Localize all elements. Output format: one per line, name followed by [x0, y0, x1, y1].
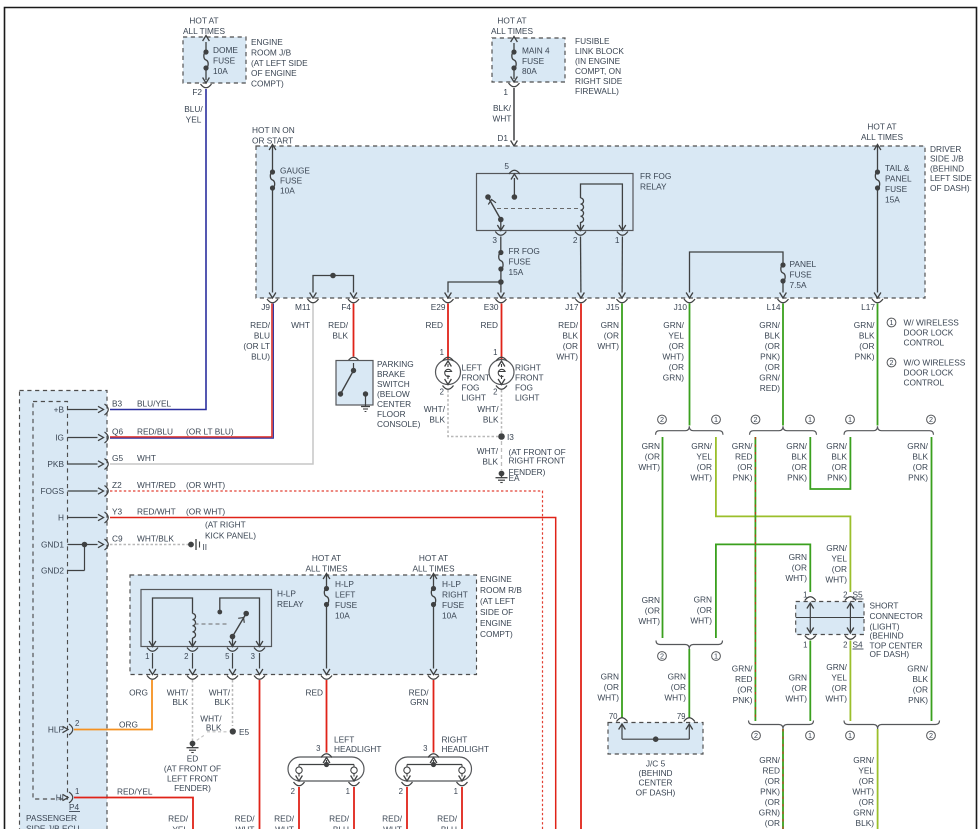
junction block ENGINE ROOM J/B (dome fuse) [183, 16, 308, 89]
svg-text:W/ WIRELESS: W/ WIRELESS [904, 318, 960, 328]
svg-text:1: 1 [454, 787, 458, 796]
svg-text:YEL: YEL [186, 115, 202, 125]
svg-text:GRN/: GRN/ [732, 441, 753, 451]
svg-text:2: 2 [75, 719, 79, 728]
svg-text:(OR: (OR [859, 776, 874, 786]
H-LP RELAY pins 1 2 5 3 [145, 641, 265, 669]
wire RED from E29 to left fog light [440, 304, 448, 360]
svg-text:PNK): PNK) [908, 473, 928, 483]
svg-text:SIDE J/B ECU: SIDE J/B ECU [26, 824, 79, 829]
svg-text:RED/: RED/ [437, 814, 458, 824]
svg-text:2: 2 [399, 787, 403, 796]
svg-text:GRN/: GRN/ [826, 662, 847, 672]
svg-text:(OR: (OR [859, 797, 874, 807]
svg-text:CONSOLE): CONSOLE) [377, 419, 421, 429]
svg-text:PNK): PNK) [827, 473, 847, 483]
svg-text:RIGHT: RIGHT [515, 363, 541, 373]
svg-text:YEL: YEL [668, 331, 684, 341]
svg-text:B3: B3 [112, 399, 123, 409]
connector pin 1 [503, 77, 519, 98]
svg-text:LIGHT: LIGHT [462, 393, 486, 403]
svg-text:15A: 15A [509, 267, 524, 277]
svg-text:GRN): GRN) [759, 808, 780, 818]
wire label RED/BLK (OR WHT) for J17 [556, 320, 578, 362]
wire GRN from short connector S5 pin 1 down to gather brace [690, 544, 810, 638]
svg-text:PANEL: PANEL [885, 174, 912, 184]
ground EA at front of right front fender [496, 447, 566, 483]
fuse FR FOG FUSE 15A [498, 237, 540, 293]
svg-text:RED/: RED/ [382, 814, 403, 824]
svg-text:FR FOG: FR FOG [509, 246, 540, 256]
svg-text:PNK): PNK) [760, 352, 780, 362]
svg-text:L14: L14 [767, 302, 781, 312]
svg-text:15A: 15A [885, 195, 900, 205]
svg-text:HOT AT: HOT AT [419, 553, 448, 563]
wire WHT/RED from FOGS down right side [110, 491, 543, 829]
wire GRN/BLK branch 1 U-link between L14 and L17 braces [786, 437, 850, 489]
wire WHT/BLK from pin 5 to E5 [197, 680, 233, 741]
svg-text:(BEHIND: (BEHIND [930, 163, 964, 173]
svg-text:RED: RED [735, 674, 753, 684]
svg-text:FOGS: FOGS [40, 486, 64, 496]
svg-text:(AT LEFT: (AT LEFT [480, 596, 515, 606]
svg-text:HOT AT: HOT AT [867, 122, 896, 132]
svg-text:(OR: (OR [669, 362, 684, 372]
legend W/ WIRELESS DOOR LOCK CONTROL [887, 318, 959, 348]
svg-text:+B: +B [54, 405, 65, 415]
svg-text:H-LP: H-LP [335, 579, 354, 589]
svg-text:CONNECTOR: CONNECTOR [870, 611, 923, 621]
svg-text:BLK: BLK [332, 331, 348, 341]
wire WHT/BLK from left fog light to I3 [424, 390, 498, 437]
svg-text:ED: ED [187, 754, 199, 764]
svg-text:(OR: (OR [792, 462, 807, 472]
svg-text:(OR: (OR [792, 683, 807, 693]
svg-text:1: 1 [808, 415, 812, 424]
svg-text:HLP: HLP [48, 725, 65, 735]
svg-text:CENTER: CENTER [638, 778, 672, 788]
svg-text:RED: RED [762, 766, 780, 776]
svg-text:(OR: (OR [645, 606, 660, 616]
svg-text:(OR: (OR [832, 564, 847, 574]
svg-text:10A: 10A [442, 611, 457, 621]
wire WHT from M11 to PKB [110, 304, 313, 465]
node E5 [230, 727, 250, 737]
svg-text:H: H [58, 513, 64, 523]
svg-text:WHT): WHT) [556, 352, 578, 362]
svg-text:(OR: (OR [697, 605, 712, 615]
wire GRN from S4 pin 1 to brace A [785, 641, 810, 722]
wire GRN/BLK from L17 to brace [877, 304, 879, 426]
svg-text:RED: RED [735, 452, 753, 462]
svg-text:ALL TIMES: ALL TIMES [491, 26, 533, 36]
svg-text:ROOM J/B: ROOM J/B [251, 47, 292, 57]
svg-text:WHT): WHT) [662, 352, 684, 362]
svg-text:DOME: DOME [213, 45, 238, 55]
svg-text:RELAY: RELAY [277, 599, 304, 609]
svg-text:5: 5 [504, 161, 509, 171]
svg-text:PNK): PNK) [733, 473, 753, 483]
svg-text:GRN/: GRN/ [826, 441, 847, 451]
svg-text:H-LP: H-LP [277, 589, 296, 599]
svg-text:WHT): WHT) [690, 616, 712, 626]
wire GRN branch 2 from J10 brace down [638, 437, 662, 638]
svg-text:YEL: YEL [858, 766, 874, 776]
connectors J9 M11 F4 E29 E30 J17 J15 J10 L14 L17 at box bottom [261, 293, 883, 313]
wire WHT/BLK from right fog light to I3 [477, 390, 501, 433]
svg-text:COMPT): COMPT) [480, 629, 513, 639]
svg-text:BLK): BLK) [856, 818, 875, 828]
svg-text:BLK: BLK [562, 331, 578, 341]
svg-text:LEFT: LEFT [462, 363, 482, 373]
ECU pin +B connector B3 [54, 399, 172, 416]
svg-text:GRN/: GRN/ [663, 320, 684, 330]
svg-text:(OR: (OR [669, 341, 684, 351]
wire RED/BLU from J9 to IG [110, 304, 273, 439]
wire label WHT for M11 [291, 320, 310, 330]
svg-text:RED/: RED/ [328, 320, 349, 330]
fuse GAUGE FUSE 10A [269, 145, 310, 293]
wire GRN/YEL from J10 to brace [689, 304, 691, 426]
svg-text:HEADLIGHT: HEADLIGHT [442, 744, 489, 754]
svg-text:(OR: (OR [765, 341, 780, 351]
svg-text:80A: 80A [522, 66, 537, 76]
ECU box inner [33, 402, 68, 800]
svg-text:COMPT): COMPT) [251, 79, 284, 89]
svg-text:FUSE: FUSE [509, 257, 532, 267]
svg-text:FOG: FOG [515, 383, 533, 393]
wire from left headlight pin 2 down [298, 787, 300, 829]
FR FOG RELAY internal contact [485, 178, 517, 231]
ECU pin HLP [48, 719, 79, 735]
svg-text:LEFT: LEFT [334, 735, 354, 745]
svg-text:PNK): PNK) [760, 787, 780, 797]
fuse TAIL & PANEL FUSE 15A [874, 145, 912, 293]
svg-text:(OR: (OR [737, 462, 752, 472]
wire label GRN/BLK (OR PNK) for L17 [854, 320, 875, 362]
svg-text:HEADLIGHT: HEADLIGHT [334, 744, 381, 754]
svg-text:SIDE J/B: SIDE J/B [930, 154, 964, 164]
svg-text:FUSE: FUSE [213, 56, 236, 66]
svg-text:(OR: (OR [859, 341, 874, 351]
svg-text:(OR LT: (OR LT [243, 341, 270, 351]
svg-text:WHT: WHT [137, 453, 156, 463]
svg-text:BLU): BLU) [251, 352, 270, 362]
svg-text:(AT LEFT SIDE: (AT LEFT SIDE [251, 58, 308, 68]
svg-text:(OR WHT): (OR WHT) [186, 480, 225, 490]
svg-text:J9: J9 [261, 302, 270, 312]
svg-text:OF ENGINE: OF ENGINE [251, 68, 297, 78]
svg-text:GND2: GND2 [41, 566, 64, 576]
svg-text:LIGHT: LIGHT [515, 393, 539, 403]
svg-text:BLK: BLK [483, 415, 499, 425]
svg-text:WHT): WHT) [638, 616, 660, 626]
ground ED at front of left front fender [164, 741, 221, 794]
svg-text:SWITCH: SWITCH [377, 379, 410, 389]
svg-text:(IN ENGINE: (IN ENGINE [575, 56, 621, 66]
svg-text:WHT: WHT [493, 114, 512, 124]
svg-text:2: 2 [929, 415, 933, 424]
svg-text:F4: F4 [341, 302, 351, 312]
svg-text:GND1: GND1 [41, 540, 64, 550]
svg-text:BLK: BLK [831, 452, 847, 462]
svg-text:TAIL &: TAIL & [885, 163, 910, 173]
wire from left headlight pin 1 down [353, 787, 355, 829]
svg-text:G5: G5 [112, 453, 123, 463]
svg-text:HOT IN ON: HOT IN ON [252, 125, 295, 135]
svg-text:S5: S5 [853, 590, 864, 600]
wire GRN/YEL output of brace B down [852, 729, 877, 829]
svg-text:2: 2 [754, 415, 758, 424]
svg-text:Q6: Q6 [112, 427, 123, 437]
svg-text:GRN/: GRN/ [907, 664, 928, 674]
svg-text:1: 1 [714, 415, 718, 424]
svg-text:PASSENGER: PASSENGER [26, 813, 77, 823]
svg-text:FUSIBLE: FUSIBLE [575, 36, 610, 46]
svg-text:BLK: BLK [172, 697, 188, 707]
lamp LEFT FRONT FOG LIGHT [436, 357, 491, 402]
fuse DOME FUSE 10A [203, 36, 239, 81]
svg-text:GAUGE: GAUGE [280, 166, 310, 176]
svg-text:RIGHT SIDE: RIGHT SIDE [575, 76, 623, 86]
svg-text:WHT): WHT) [825, 575, 847, 585]
wire label RED for E30 [480, 320, 498, 330]
svg-text:F2: F2 [192, 87, 202, 97]
svg-text:IG: IG [55, 433, 64, 443]
relay U1 FR FOG RELAY [477, 171, 672, 231]
svg-text:RED/: RED/ [274, 814, 295, 824]
svg-text:1: 1 [803, 641, 807, 650]
svg-text:FUSE: FUSE [335, 600, 358, 610]
wire GRN/RED output of brace A down [758, 729, 783, 829]
svg-text:RIGHT: RIGHT [442, 590, 468, 600]
svg-text:LEFT: LEFT [335, 590, 355, 600]
svg-text:WHT: WHT [383, 825, 402, 829]
svg-text:KICK PANEL): KICK PANEL) [205, 531, 256, 541]
svg-text:WHT: WHT [275, 825, 294, 829]
svg-text:(BEHIND: (BEHIND [638, 768, 672, 778]
ECU pin IG connector Q6 [55, 427, 234, 444]
svg-text:P4: P4 [69, 802, 80, 812]
svg-text:WHT): WHT) [785, 573, 807, 583]
svg-text:ORG: ORG [119, 720, 138, 730]
wire GRN from J15 to J/C 5 pin 70 [621, 304, 623, 719]
svg-text:GRN: GRN [601, 672, 619, 682]
svg-text:1: 1 [145, 652, 149, 661]
svg-text:GRN/: GRN/ [759, 755, 780, 765]
svg-text:RIGHT: RIGHT [442, 735, 468, 745]
junction connector J/C 5 [608, 712, 703, 797]
svg-text:WHT: WHT [236, 825, 255, 829]
wire RED/GRN from H-LP RIGHT FUSE to right headlight [409, 680, 434, 753]
svg-text:GRN: GRN [642, 441, 660, 451]
svg-text:1: 1 [808, 731, 812, 740]
svg-text:RELAY: RELAY [640, 182, 667, 192]
svg-text:FUSE: FUSE [442, 600, 465, 610]
svg-text:ALL TIMES: ALL TIMES [413, 564, 455, 574]
svg-text:FENDER): FENDER) [509, 467, 546, 477]
svg-text:5: 5 [225, 652, 230, 661]
svg-text:3: 3 [423, 744, 427, 753]
svg-text:WHT): WHT) [825, 694, 847, 704]
svg-text:GRN: GRN [410, 697, 428, 707]
svg-text:WHT: WHT [291, 320, 310, 330]
svg-text:WHT): WHT) [852, 787, 874, 797]
svg-text:10A: 10A [280, 186, 295, 196]
svg-text:2: 2 [291, 787, 295, 796]
fuse H-LP RIGHT FUSE 10A [413, 553, 468, 669]
svg-text:ALL TIMES: ALL TIMES [183, 26, 225, 36]
svg-text:GRN/: GRN/ [826, 543, 847, 553]
svg-text:YEL: YEL [696, 452, 712, 462]
ECU pin GND2 jumper to GND1 [41, 542, 87, 576]
svg-text:II: II [203, 542, 208, 552]
ECU pin PKB connector G5 [47, 453, 156, 470]
svg-text:RED: RED [425, 320, 443, 330]
svg-text:PANEL: PANEL [790, 259, 817, 269]
svg-text:WHT/: WHT/ [477, 404, 499, 414]
wire GRN/BLK from L14 to brace [782, 304, 784, 426]
svg-text:BRAKE: BRAKE [377, 369, 406, 379]
internal wire pin1 to J15 [621, 237, 623, 293]
svg-text:YEL: YEL [831, 673, 847, 683]
wire RED/YEL from HI down [74, 787, 193, 829]
svg-text:SHORT: SHORT [870, 601, 899, 611]
wire WHT/BLK from I3 to ground EA [477, 441, 502, 470]
svg-text:PNK): PNK) [787, 473, 807, 483]
svg-text:ALL TIMES: ALL TIMES [306, 564, 348, 574]
svg-text:(OR: (OR [913, 685, 928, 695]
svg-text:(OR: (OR [765, 818, 780, 828]
svg-text:BLK: BLK [764, 331, 780, 341]
svg-text:M11: M11 [295, 302, 311, 312]
svg-text:FOG: FOG [462, 383, 480, 393]
svg-text:(OR: (OR [697, 462, 712, 472]
svg-text:70: 70 [609, 712, 618, 721]
svg-text:J15: J15 [606, 302, 620, 312]
wire label GRN/BLK for L14 [759, 320, 780, 393]
svg-text:YEL: YEL [172, 825, 188, 829]
svg-text:GRN: GRN [694, 595, 712, 605]
ECU pin H connector Y3 [58, 507, 225, 524]
wire GRN/BLK branch 2 from L17 brace down to brace B [907, 437, 931, 721]
svg-text:(OR: (OR [913, 462, 928, 472]
svg-text:BLU/: BLU/ [184, 104, 203, 114]
lamp RIGHT FRONT FOG LIGHT [489, 357, 544, 402]
wire RED/WHT from H down right side [110, 518, 556, 829]
wire WHT/BLK from pin 2 to ground ED [167, 680, 193, 741]
wire from right headlight pin 2 down [406, 787, 408, 829]
wire ORG from H-LP relay pin 1 to HLP [74, 680, 152, 730]
ECU box PASSENGER SIDE J/B ECU outer [20, 391, 108, 829]
svg-text:(OR: (OR [671, 682, 686, 692]
relay U2 H-LP RELAY [141, 589, 304, 647]
svg-text:DOOR LOCK: DOOR LOCK [904, 368, 954, 378]
connector F2 [192, 78, 211, 98]
svg-text:BLK: BLK [912, 674, 928, 684]
internal wire pin2 to J17 [580, 237, 582, 293]
svg-text:2: 2 [660, 652, 664, 661]
svg-text:WHT): WHT) [638, 462, 660, 472]
svg-text:GRN: GRN [601, 320, 619, 330]
svg-text:FENDER): FENDER) [174, 783, 211, 793]
svg-text:W/O WIRELESS: W/O WIRELESS [904, 358, 966, 368]
brace gather B [844, 721, 940, 741]
svg-text:LINK BLOCK: LINK BLOCK [575, 46, 624, 56]
brace split under L17 [844, 415, 935, 435]
bottom wire labels [168, 814, 458, 829]
connector SHORT CONNECTOR (LIGHT) [796, 590, 923, 660]
svg-text:RED/: RED/ [250, 320, 271, 330]
relay block ENGINE ROOM R/B [130, 574, 522, 675]
svg-text:GRN/: GRN/ [907, 441, 928, 451]
wire label GRN/YEL for J10 [662, 320, 684, 383]
svg-text:GRN/: GRN/ [853, 755, 874, 765]
svg-text:1: 1 [714, 652, 718, 661]
svg-text:BLK: BLK [206, 723, 222, 733]
svg-text:GRN: GRN [789, 673, 807, 683]
ECU pin HI [56, 787, 80, 812]
svg-text:LEFT SIDE: LEFT SIDE [930, 173, 972, 183]
svg-text:RED/BLU: RED/BLU [137, 427, 173, 437]
svg-text:COMPT, ON: COMPT, ON [575, 66, 621, 76]
svg-text:1: 1 [890, 318, 894, 327]
svg-text:RIGHT FRONT: RIGHT FRONT [509, 456, 566, 466]
svg-text:1: 1 [803, 591, 807, 600]
svg-text:WHT): WHT) [597, 693, 619, 703]
ECU pin FOGS connector Z2 [40, 480, 225, 497]
svg-text:3: 3 [316, 744, 320, 753]
svg-text:GRN/: GRN/ [759, 320, 780, 330]
svg-text:(OR WHT): (OR WHT) [186, 507, 225, 517]
svg-text:BLK: BLK [214, 697, 230, 707]
svg-text:ENGINE: ENGINE [251, 37, 283, 47]
svg-text:(OR: (OR [792, 563, 807, 573]
svg-text:(OR: (OR [645, 452, 660, 462]
svg-text:79: 79 [677, 712, 686, 721]
svg-text:PNK): PNK) [733, 695, 753, 705]
wire BLU/YEL from F2 to +B [110, 89, 206, 410]
svg-text:ROOM R/B: ROOM R/B [480, 585, 522, 595]
FR FOG RELAY coil [581, 184, 623, 231]
svg-text:FUSE: FUSE [790, 270, 813, 280]
wire GRN/YEL from S4 pin 2 to brace B [825, 641, 850, 722]
junction block DRIVER SIDE J/B [252, 122, 972, 299]
svg-text:J17: J17 [565, 302, 579, 312]
svg-text:WHT/: WHT/ [424, 404, 446, 414]
svg-text:S4: S4 [853, 640, 864, 650]
svg-text:1: 1 [440, 348, 444, 357]
svg-text:BLK/: BLK/ [493, 103, 512, 113]
svg-text:PNK): PNK) [855, 352, 875, 362]
svg-text:PNK): PNK) [908, 695, 928, 705]
svg-text:SIDE OF: SIDE OF [480, 607, 513, 617]
fusible link block MAIN 4 [491, 16, 624, 97]
internal wires M11 F4 jumper [313, 273, 354, 293]
svg-text:GRN): GRN) [663, 373, 684, 383]
svg-text:RED): RED) [760, 383, 781, 393]
svg-text:GRN/: GRN/ [854, 320, 875, 330]
wire RED from H-LP LEFT FUSE to left headlight [305, 680, 326, 753]
wire label GRN (OR WHT) for J15 [597, 320, 619, 351]
svg-text:WHT): WHT) [664, 693, 686, 703]
junction and branch to E29 [448, 279, 504, 292]
svg-text:ALL TIMES: ALL TIMES [861, 132, 903, 142]
svg-text:RED/: RED/ [168, 814, 189, 824]
svg-text:GRN: GRN [642, 595, 660, 605]
FR FOG RELAY pins 3 2 1 [492, 225, 628, 245]
svg-text:(OR LT BLU): (OR LT BLU) [186, 427, 234, 437]
